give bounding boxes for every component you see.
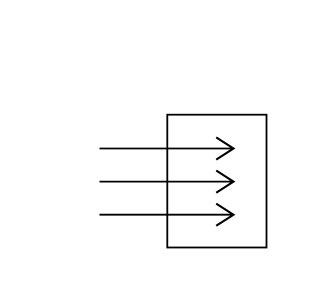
arrow 1 wire — [100, 148, 234, 150]
arrow 1 head — [216, 137, 233, 159]
arrow 3 head — [216, 204, 233, 226]
arrow 3 wire — [100, 214, 234, 216]
box — [167, 115, 266, 248]
arrow 2 wire — [100, 181, 234, 183]
arrow 2 head — [216, 171, 233, 193]
